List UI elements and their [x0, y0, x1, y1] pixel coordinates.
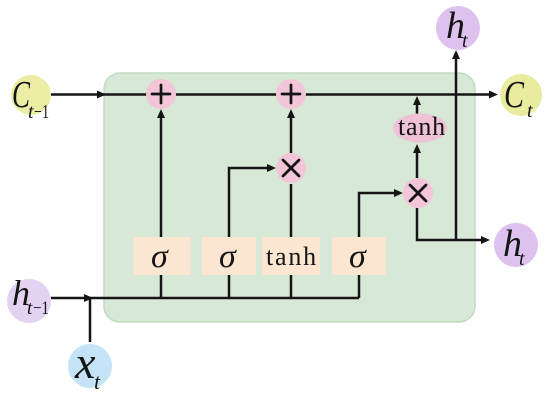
svg-text:σ: σ: [349, 238, 367, 275]
svg-text:x: x: [74, 337, 96, 388]
svg-text:σ: σ: [219, 238, 237, 275]
svg-text:−1: −1: [34, 101, 49, 123]
svg-text:t: t: [519, 248, 525, 270]
svg-text:t: t: [94, 369, 101, 394]
svg-text:t: t: [462, 30, 468, 52]
svg-text:C: C: [504, 74, 525, 116]
svg-text:−1: −1: [33, 298, 49, 319]
svg-text:σ: σ: [151, 238, 169, 275]
svg-text:tanh: tanh: [266, 242, 318, 271]
svg-text:tanh: tanh: [398, 112, 446, 141]
svg-text:t: t: [527, 100, 533, 122]
